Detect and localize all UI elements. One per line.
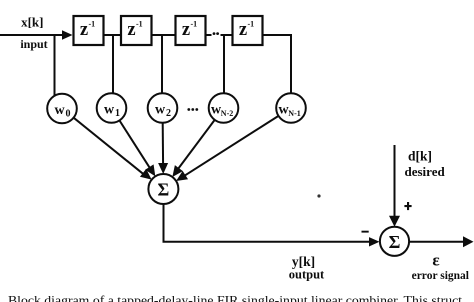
arrowhead WN-1 into summer U1 — [176, 171, 188, 181]
svg-text:Block diagram of a tapped-dela: Block diagram of a tapped-delay-line FIR… — [8, 293, 462, 302]
arrowhead WN-2 into summer U1 — [172, 165, 183, 177]
svg-text:-1: -1 — [191, 20, 198, 29]
svg-text:N-1: N-1 — [288, 109, 300, 118]
weight W1 — [97, 93, 127, 123]
svg-text:z: z — [182, 20, 190, 40]
svg-text:ε: ε — [432, 250, 439, 269]
summer U2 — [380, 227, 409, 256]
ink speckle — [317, 194, 320, 197]
wire W0 to summer U1 — [74, 118, 146, 177]
wire tap to W1 — [112, 35, 114, 93]
minus sign at summer U2 input — [362, 231, 369, 233]
delay block D4 z^-1 — [233, 16, 263, 45]
svg-text:error signal: error signal — [412, 270, 469, 282]
svg-text:-1: -1 — [136, 20, 143, 29]
arrowhead W0 into summer U1 — [140, 169, 152, 180]
summer U1 — [148, 174, 178, 204]
weight WN-2 — [209, 93, 239, 123]
ellipsis between W2 and WN-2 — [187, 108, 198, 111]
svg-text:-1: -1 — [89, 20, 96, 29]
svg-text:d[k]: d[k] — [408, 148, 432, 163]
wire summer U1 output down and right to summer U2 — [164, 204, 371, 242]
wire input line — [0, 34, 64, 36]
svg-text:Σ: Σ — [389, 232, 401, 252]
svg-text:input: input — [20, 37, 47, 51]
svg-text:w: w — [104, 103, 115, 118]
wire from D4 to corner above WN-1 — [263, 35, 292, 94]
arrowhead error output right edge — [463, 236, 474, 247]
weight W2 — [148, 93, 178, 123]
wire between D2 and D3 — [152, 34, 176, 36]
delay block D2 z^-1 — [121, 16, 152, 45]
svg-text:0: 0 — [66, 109, 71, 120]
wire between D1 and D2 — [104, 34, 122, 36]
svg-text:x[k]: x[k] — [21, 15, 43, 30]
wire between ellipsis and D4 — [221, 34, 233, 36]
wire tap to W0 — [54, 35, 56, 96]
wire d[k] vertical into summer U2 — [394, 145, 396, 218]
wire W2 to summer U1 — [162, 123, 164, 166]
svg-text:w: w — [54, 103, 65, 118]
wire error output from summer U2 — [409, 241, 464, 243]
svg-text:-1: -1 — [248, 20, 255, 29]
svg-text:2: 2 — [166, 108, 171, 119]
arrowhead W2 into summer U1 — [158, 163, 168, 174]
svg-text:z: z — [239, 20, 247, 40]
delay block D3 z^-1 — [176, 16, 206, 45]
weight WN-1 — [276, 93, 306, 123]
wire tap to W2 — [161, 35, 163, 93]
wire WN-1 to summer U1 — [182, 116, 279, 177]
wire W1 to summer U1 — [120, 121, 152, 170]
ellipsis on delay line — [213, 32, 219, 35]
delay block D1 z^-1 — [74, 16, 104, 45]
svg-text:z: z — [127, 20, 135, 40]
wire between D3 and ellipsis — [206, 34, 212, 36]
wire tap to WN-2 — [223, 35, 225, 93]
arrowhead output into summer U2 — [369, 237, 380, 246]
plus sign at summer U2 input — [404, 202, 411, 210]
svg-text:Σ: Σ — [158, 180, 170, 200]
weight W0 — [47, 94, 77, 124]
svg-text:1: 1 — [115, 108, 120, 119]
arrowhead d[k] into summer U2 — [389, 216, 400, 227]
svg-text:z: z — [80, 20, 88, 40]
svg-text:output: output — [289, 267, 325, 281]
input arrowhead into D1 — [62, 30, 73, 39]
wire WN-2 to summer U1 — [177, 120, 215, 171]
svg-text:desired: desired — [405, 164, 446, 179]
arrowhead W1 into summer U1 — [145, 164, 155, 176]
svg-text:w: w — [155, 103, 166, 118]
svg-text:N-2: N-2 — [221, 109, 233, 118]
